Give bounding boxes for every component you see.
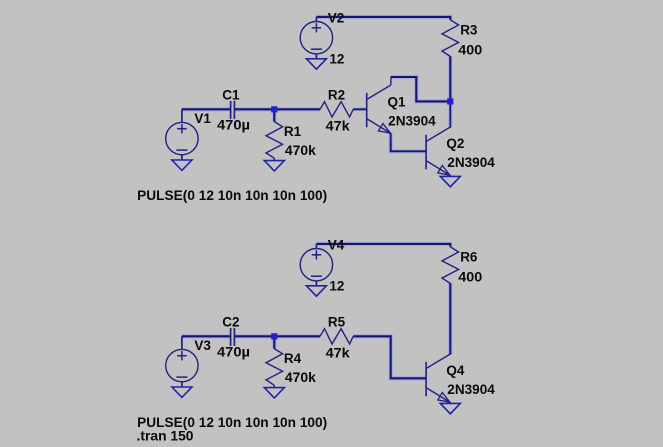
voltage source V3 — [166, 336, 212, 387]
ground below V3 — [172, 387, 192, 397]
wire C2 to node to R5 — [234, 334, 320, 338]
transistor Q2 — [426, 120, 495, 176]
wire R3 bottom to node — [448, 56, 452, 101]
svg-text:R6: R6 — [460, 249, 478, 264]
svg-text:47k: 47k — [326, 345, 351, 360]
V3 value label PULSE — [137, 415, 327, 430]
svg-text:.tran 150: .tran 150 — [137, 428, 194, 443]
wire V1 to C1 — [182, 107, 231, 111]
wire Q1 collector loop — [391, 77, 451, 101]
transistor Q4 — [426, 347, 495, 403]
capacitor C1 — [217, 88, 250, 133]
svg-text:R5: R5 — [328, 315, 346, 330]
junction node R3/Q1/Q2 — [447, 98, 453, 104]
spice directive .tran — [137, 428, 194, 443]
ground below V1 — [172, 160, 192, 170]
wire V4 to R6 top — [316, 244, 450, 247]
junction node C1/R1/R2 — [271, 106, 277, 112]
ground below Q4 emitter — [440, 403, 460, 414]
ground below V4 — [306, 286, 326, 296]
svg-text:400: 400 — [458, 43, 482, 58]
svg-text:R4: R4 — [284, 351, 302, 366]
svg-text:R3: R3 — [460, 22, 478, 37]
svg-text:400: 400 — [458, 270, 482, 285]
resistor R4 — [266, 349, 316, 388]
wire R2 to Q1 base — [353, 107, 367, 111]
resistor R5 — [320, 315, 353, 361]
svg-text:V3: V3 — [194, 338, 211, 353]
wire C1 to node to R2 — [234, 107, 320, 111]
svg-text:V2: V2 — [328, 10, 345, 25]
voltage source V4 — [300, 237, 345, 293]
svg-text:470µ: 470µ — [217, 117, 250, 132]
svg-text:12: 12 — [329, 278, 344, 293]
svg-text:PULSE(0 12 10n 10n 10n 100): PULSE(0 12 10n 10n 10n 100) — [137, 188, 327, 203]
svg-text:V1: V1 — [194, 111, 211, 126]
ground below Q2 emitter — [440, 176, 460, 187]
capacitor C2 — [217, 315, 250, 360]
svg-text:2N3904: 2N3904 — [447, 382, 495, 397]
resistor R6 — [442, 247, 482, 285]
V1 value label PULSE — [137, 188, 327, 203]
svg-text:R1: R1 — [284, 124, 302, 139]
svg-text:R2: R2 — [328, 88, 345, 103]
ground below V2 — [306, 59, 326, 69]
svg-text:Q4: Q4 — [446, 363, 465, 378]
svg-text:Q2: Q2 — [446, 136, 464, 151]
svg-text:2N3904: 2N3904 — [388, 113, 436, 128]
wire V3 to C2 — [182, 334, 231, 338]
svg-text:470µ: 470µ — [217, 344, 250, 359]
wire R5 to Q4 base — [353, 336, 426, 378]
wire Q1 emitter to Q2 base — [391, 133, 426, 151]
svg-text:C2: C2 — [222, 315, 239, 330]
transistor Q1 — [367, 77, 436, 142]
svg-text:C1: C1 — [222, 88, 240, 103]
resistor R1 — [266, 122, 316, 161]
svg-text:2N3904: 2N3904 — [447, 155, 495, 170]
ground below R1 — [264, 161, 284, 171]
svg-text:470k: 470k — [285, 143, 316, 158]
wire R6 bottom to Q4 collector — [448, 283, 452, 354]
svg-text:12: 12 — [329, 51, 344, 66]
wire node to R4 — [272, 336, 276, 348]
junction node C2/R4/R5 — [271, 333, 277, 339]
resistor R3 — [442, 20, 482, 58]
wire node to Q2 collector — [448, 101, 452, 127]
voltage source V1 — [166, 109, 212, 160]
wire V2 to R3 top — [316, 17, 450, 20]
resistor R2 — [320, 88, 353, 134]
ground below R4 — [264, 388, 284, 398]
voltage source V2 — [300, 10, 344, 66]
svg-text:Q1: Q1 — [388, 95, 407, 110]
svg-text:V4: V4 — [328, 237, 345, 252]
wire node to R1 — [272, 109, 276, 121]
svg-text:47k: 47k — [326, 118, 351, 133]
svg-text:470k: 470k — [285, 370, 316, 385]
